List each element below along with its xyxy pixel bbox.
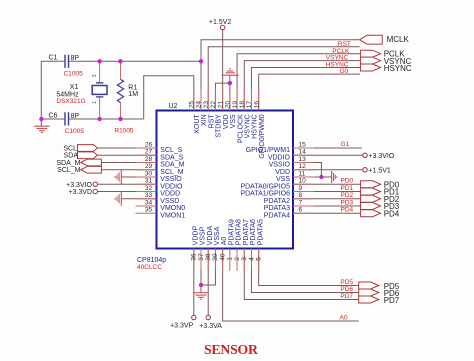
svg-text:22: 22	[210, 101, 217, 109]
svg-text:11: 11	[299, 170, 306, 177]
svg-text:SCL: SCL	[63, 145, 77, 152]
svg-text:31: 31	[145, 178, 153, 185]
svg-text:HSYNC: HSYNC	[384, 64, 412, 73]
svg-text:10: 10	[299, 178, 307, 185]
svg-text:1M: 1M	[128, 91, 138, 98]
wire XIN to MCLK port	[201, 40, 360, 111]
svg-text:33: 33	[145, 192, 153, 199]
wire top crystal net	[41, 60, 200, 62]
svg-text:SDA_S: SDA_S	[160, 154, 183, 161]
power +1.5V1 right	[293, 169, 363, 171]
svg-text:37: 37	[198, 253, 205, 261]
svg-text:VSSIO: VSSIO	[269, 162, 291, 169]
node VSSIO-VSS junction	[319, 175, 323, 179]
svg-text:SENSOR: SENSOR	[204, 342, 259, 357]
svg-text:GPIO1/PWM1: GPIO1/PWM1	[246, 147, 290, 154]
capacitor C1	[65, 55, 69, 68]
power +3.3VD left	[98, 191, 157, 193]
wire G1 net	[293, 147, 362, 149]
wire left vertical to ground	[40, 61, 42, 126]
svg-text:PD7: PD7	[340, 293, 353, 300]
svg-text:+3.3VD: +3.3VD	[68, 189, 92, 196]
wire G0 net	[259, 74, 360, 110]
port HSYNC	[361, 64, 381, 71]
svg-text:VMON1: VMON1	[160, 212, 185, 219]
svg-text:VSSIO: VSSIO	[160, 176, 182, 183]
ground VSSP bottom	[200, 249, 202, 293]
svg-text:XOUT: XOUT	[194, 114, 201, 134]
ground VSS top	[229, 75, 231, 110]
svg-text:PD6: PD6	[340, 286, 353, 293]
port SDA_M	[81, 159, 102, 166]
capacitor C6	[65, 112, 69, 125]
svg-text:SCL_S: SCL_S	[160, 147, 183, 154]
ports PD5-PD7	[359, 282, 379, 289]
svg-text:4: 4	[248, 257, 255, 261]
node R1 bottom	[118, 117, 122, 121]
svg-text:PD3: PD3	[341, 199, 354, 206]
svg-text:PDATA6: PDATA6	[250, 219, 257, 245]
svg-text:34: 34	[145, 199, 153, 206]
wire PDATA7 to PD7	[244, 249, 358, 300]
wire VSYNC net	[244, 61, 360, 111]
svg-text:RST: RST	[208, 114, 215, 129]
svg-text:C1: C1	[49, 55, 58, 62]
wire RST net	[208, 47, 359, 111]
svg-text:9: 9	[299, 185, 303, 192]
svg-text:8: 8	[299, 192, 303, 199]
svg-text:19: 19	[232, 101, 239, 109]
svg-text:5: 5	[255, 257, 262, 261]
svg-text:+1.5V2: +1.5V2	[209, 19, 231, 26]
wire SDA to pin 27	[97, 154, 156, 156]
wire VSSA to ground	[201, 249, 215, 286]
svg-text:PDATA1/GPIO6: PDATA1/GPIO6	[240, 191, 290, 198]
port PCLK	[361, 50, 381, 57]
svg-text:C1005: C1005	[64, 70, 84, 77]
svg-text:G0: G0	[340, 68, 349, 75]
svg-text:14: 14	[299, 149, 307, 156]
svg-text:C1005: C1005	[65, 128, 85, 135]
node STDBY-VSS junction	[228, 81, 232, 85]
svg-text:X1: X1	[70, 84, 79, 91]
svg-text:PD7: PD7	[384, 296, 400, 305]
svg-text:VSSD: VSSD	[160, 198, 179, 205]
IC U2 CP8104p 40CLCC	[157, 111, 294, 249]
svg-text:VSSP: VSSP	[200, 226, 207, 245]
svg-text:25: 25	[189, 101, 196, 109]
pin stubs PDATA9 PDATA8 unconnected	[229, 249, 231, 271]
svg-text:3: 3	[92, 74, 98, 77]
svg-text:VSYNC: VSYNC	[244, 114, 251, 138]
port VSYNC	[361, 57, 381, 64]
svg-text:+3.3VP: +3.3VP	[170, 323, 193, 330]
svg-text:12: 12	[299, 163, 307, 170]
svg-text:+1.5V1: +1.5V1	[368, 168, 390, 175]
svg-text:PCLOCK: PCLOCK	[237, 114, 244, 143]
wire XOUT route	[144, 76, 194, 119]
svg-text:PDATA0/GPIO5: PDATA0/GPIO5	[240, 183, 290, 190]
svg-text:A0: A0	[340, 314, 348, 321]
svg-text:6: 6	[299, 207, 303, 214]
resistor R1 1M	[120, 61, 122, 119]
svg-text:VSSA: VSSA	[214, 226, 221, 245]
bottom pin stubs	[193, 249, 195, 270]
svg-text:+3.3VIO: +3.3VIO	[66, 182, 92, 189]
svg-text:2: 2	[234, 257, 241, 261]
svg-text:G1: G1	[341, 141, 350, 148]
svg-text:26: 26	[145, 141, 153, 148]
svg-text:SCL_M: SCL_M	[160, 169, 184, 176]
svg-text:VDDP: VDDP	[192, 226, 199, 246]
svg-text:18: 18	[239, 101, 246, 109]
svg-text:35: 35	[145, 207, 153, 214]
node R1 top	[118, 59, 122, 63]
svg-text:SDA: SDA	[64, 153, 79, 160]
svg-text:+3.3VIO: +3.3VIO	[368, 153, 394, 160]
svg-text:STDBY: STDBY	[216, 114, 223, 138]
svg-text:PD4: PD4	[384, 209, 400, 218]
svg-text:XIN: XIN	[201, 114, 208, 126]
svg-text:7: 7	[299, 199, 303, 206]
svg-text:28: 28	[145, 156, 153, 163]
svg-text:1: 1	[92, 101, 98, 104]
svg-text:PDATA5: PDATA5	[257, 219, 264, 245]
power +1.5V2	[222, 30, 224, 111]
svg-text:32: 32	[145, 185, 153, 192]
svg-text:C6: C6	[49, 113, 58, 120]
power +3.3VIO left	[98, 183, 157, 185]
wire HSYNC net	[251, 68, 360, 111]
node junction left bottom	[39, 117, 43, 121]
wire SCL to pin 26	[97, 147, 156, 149]
svg-text:SCL_M: SCL_M	[57, 167, 81, 174]
svg-text:U2: U2	[169, 103, 178, 110]
svg-text:VDD: VDD	[223, 114, 230, 129]
ground VSSIO left	[121, 176, 156, 178]
svg-text:39: 39	[212, 253, 219, 261]
svg-text:29: 29	[145, 163, 153, 170]
svg-text:+3.3VA: +3.3VA	[199, 323, 222, 330]
svg-text:PDATA8: PDATA8	[236, 219, 243, 245]
svg-text:20: 20	[225, 101, 232, 109]
svg-text:40CLCC: 40CLCC	[137, 264, 162, 271]
svg-text:PDATA2: PDATA2	[264, 198, 290, 205]
svg-text:38: 38	[205, 253, 212, 261]
svg-text:PD2: PD2	[341, 192, 354, 199]
svg-text:SDA_M: SDA_M	[56, 160, 80, 167]
power +3.3VIO right	[293, 154, 363, 156]
svg-text:PD0: PD0	[341, 178, 354, 185]
svg-text:27: 27	[145, 149, 153, 156]
node XIN crystal junction	[199, 59, 203, 63]
svg-text:VDD: VDD	[275, 169, 290, 176]
svg-text:PDATA3: PDATA3	[264, 205, 290, 212]
svg-text:13: 13	[299, 156, 307, 163]
ground bottom-left	[34, 125, 50, 127]
top pin stubs	[193, 90, 195, 111]
svg-text:DSX321G: DSX321G	[56, 98, 85, 105]
ports PD0-PD4	[361, 181, 381, 188]
svg-text:VSS: VSS	[230, 114, 237, 128]
svg-text:15: 15	[299, 141, 307, 148]
svg-text:21: 21	[217, 101, 224, 109]
port SCL_M	[81, 166, 102, 173]
svg-text:R1005: R1005	[114, 128, 134, 135]
svg-text:VDDIO: VDDIO	[268, 154, 291, 161]
port SDA	[78, 152, 98, 159]
svg-text:24: 24	[196, 101, 203, 109]
svg-text:SDA_M: SDA_M	[160, 162, 184, 169]
port MCLK	[360, 35, 383, 44]
svg-text:MCLK: MCLK	[387, 35, 410, 44]
power +3.3VP	[193, 249, 195, 316]
port SCL	[78, 145, 98, 152]
svg-text:VMON0: VMON0	[160, 205, 185, 212]
wire PCLK net	[237, 54, 361, 111]
svg-text:PD4: PD4	[341, 207, 354, 214]
ground VSS right	[293, 176, 332, 178]
wire PDATA6 to PD6	[251, 249, 358, 293]
svg-text:8P: 8P	[71, 113, 80, 120]
wire SDA_M to pin 28	[101, 162, 156, 164]
svg-text:VDDIO: VDDIO	[160, 183, 183, 190]
svg-text:PDATA9: PDATA9	[228, 219, 235, 245]
svg-text:PD5: PD5	[340, 279, 353, 286]
wire STDBY to VSS	[215, 83, 229, 110]
svg-text:VDDA: VDDA	[207, 226, 214, 246]
wire VSSIO to VSS	[293, 163, 321, 178]
svg-text:1: 1	[227, 257, 234, 261]
wire SCL_M to pin 29	[101, 169, 156, 171]
svg-text:40: 40	[219, 253, 226, 261]
svg-text:36: 36	[191, 253, 198, 261]
left pin stubs	[136, 147, 157, 149]
svg-text:VSS: VSS	[276, 176, 290, 183]
svg-text:PD1: PD1	[341, 185, 354, 192]
wire bottom crystal net	[41, 118, 143, 120]
svg-text:23: 23	[203, 101, 210, 109]
svg-text:3: 3	[241, 257, 248, 261]
svg-text:17: 17	[246, 101, 253, 109]
ground VSSD left	[121, 198, 156, 200]
svg-text:16: 16	[253, 101, 260, 109]
node VSSP-VSSA junction	[199, 283, 203, 287]
svg-text:A0: A0	[221, 237, 228, 246]
svg-text:PDATA4: PDATA4	[264, 212, 290, 219]
power +3.3VA	[207, 249, 209, 316]
wire A0 net	[223, 249, 359, 322]
wire PDATA5 to PD5	[259, 249, 359, 286]
svg-text:VDDD: VDDD	[160, 191, 180, 198]
node crystal top	[97, 59, 101, 63]
svg-text:PDATA7: PDATA7	[243, 219, 250, 245]
svg-text:CP8104p: CP8104p	[137, 257, 166, 264]
wires PDATA0-4 to ports	[293, 183, 361, 185]
svg-text:30: 30	[145, 170, 153, 177]
right pin stubs	[293, 147, 314, 149]
svg-text:8P: 8P	[71, 55, 80, 62]
svg-text:HSYNC: HSYNC	[252, 114, 259, 139]
node crystal bottom	[97, 117, 101, 121]
crystal X1	[99, 61, 101, 119]
